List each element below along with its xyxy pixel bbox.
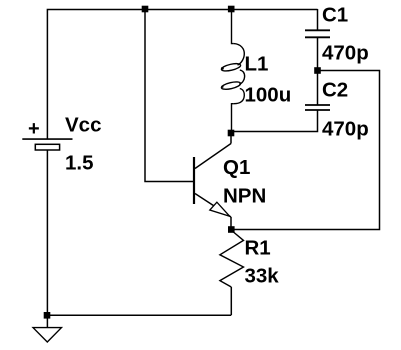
wire feedback right bbox=[231, 71, 379, 230]
svg-text:NPN: NPN bbox=[223, 185, 266, 208]
svg-text:470p: 470p bbox=[322, 42, 369, 65]
wire collector bbox=[230, 133, 232, 144]
transistor Q1 bbox=[194, 144, 231, 218]
wire bottom rail bbox=[47, 314, 231, 316]
svg-text:1.5: 1.5 bbox=[65, 152, 94, 175]
svg-text:Q1: Q1 bbox=[223, 156, 250, 179]
svg-text:470p: 470p bbox=[322, 118, 369, 141]
node junction top base bbox=[142, 6, 149, 13]
node junction collector bbox=[228, 130, 235, 137]
node junction ground bbox=[44, 312, 51, 319]
svg-text:33k: 33k bbox=[245, 265, 280, 288]
node junction top L1 bbox=[228, 6, 235, 13]
wire top rail Vcc bbox=[47, 10, 317, 140]
svg-text:C1: C1 bbox=[322, 4, 348, 27]
svg-text:100u: 100u bbox=[245, 84, 292, 107]
wire emitter bbox=[230, 217, 232, 230]
svg-text:C2: C2 bbox=[322, 79, 348, 102]
wire battery negative to ground bbox=[46, 150, 48, 327]
node junction C1 C2 bbox=[314, 67, 321, 74]
capacitor C2 bbox=[231, 71, 330, 132]
ground bbox=[33, 328, 62, 342]
svg-text:Vcc: Vcc bbox=[65, 114, 101, 137]
svg-text:L1: L1 bbox=[245, 53, 269, 76]
capacitor C1 bbox=[305, 9, 330, 71]
node junction emitter bbox=[228, 226, 235, 233]
resistor R1 bbox=[220, 230, 244, 287]
svg-text:R1: R1 bbox=[245, 237, 271, 260]
svg-text:+: + bbox=[28, 118, 40, 140]
wire R1 bottom bbox=[230, 287, 232, 315]
battery V1 Vcc bbox=[22, 139, 72, 150]
wire base vertical bbox=[145, 10, 194, 182]
inductor L1 bbox=[221, 9, 245, 132]
